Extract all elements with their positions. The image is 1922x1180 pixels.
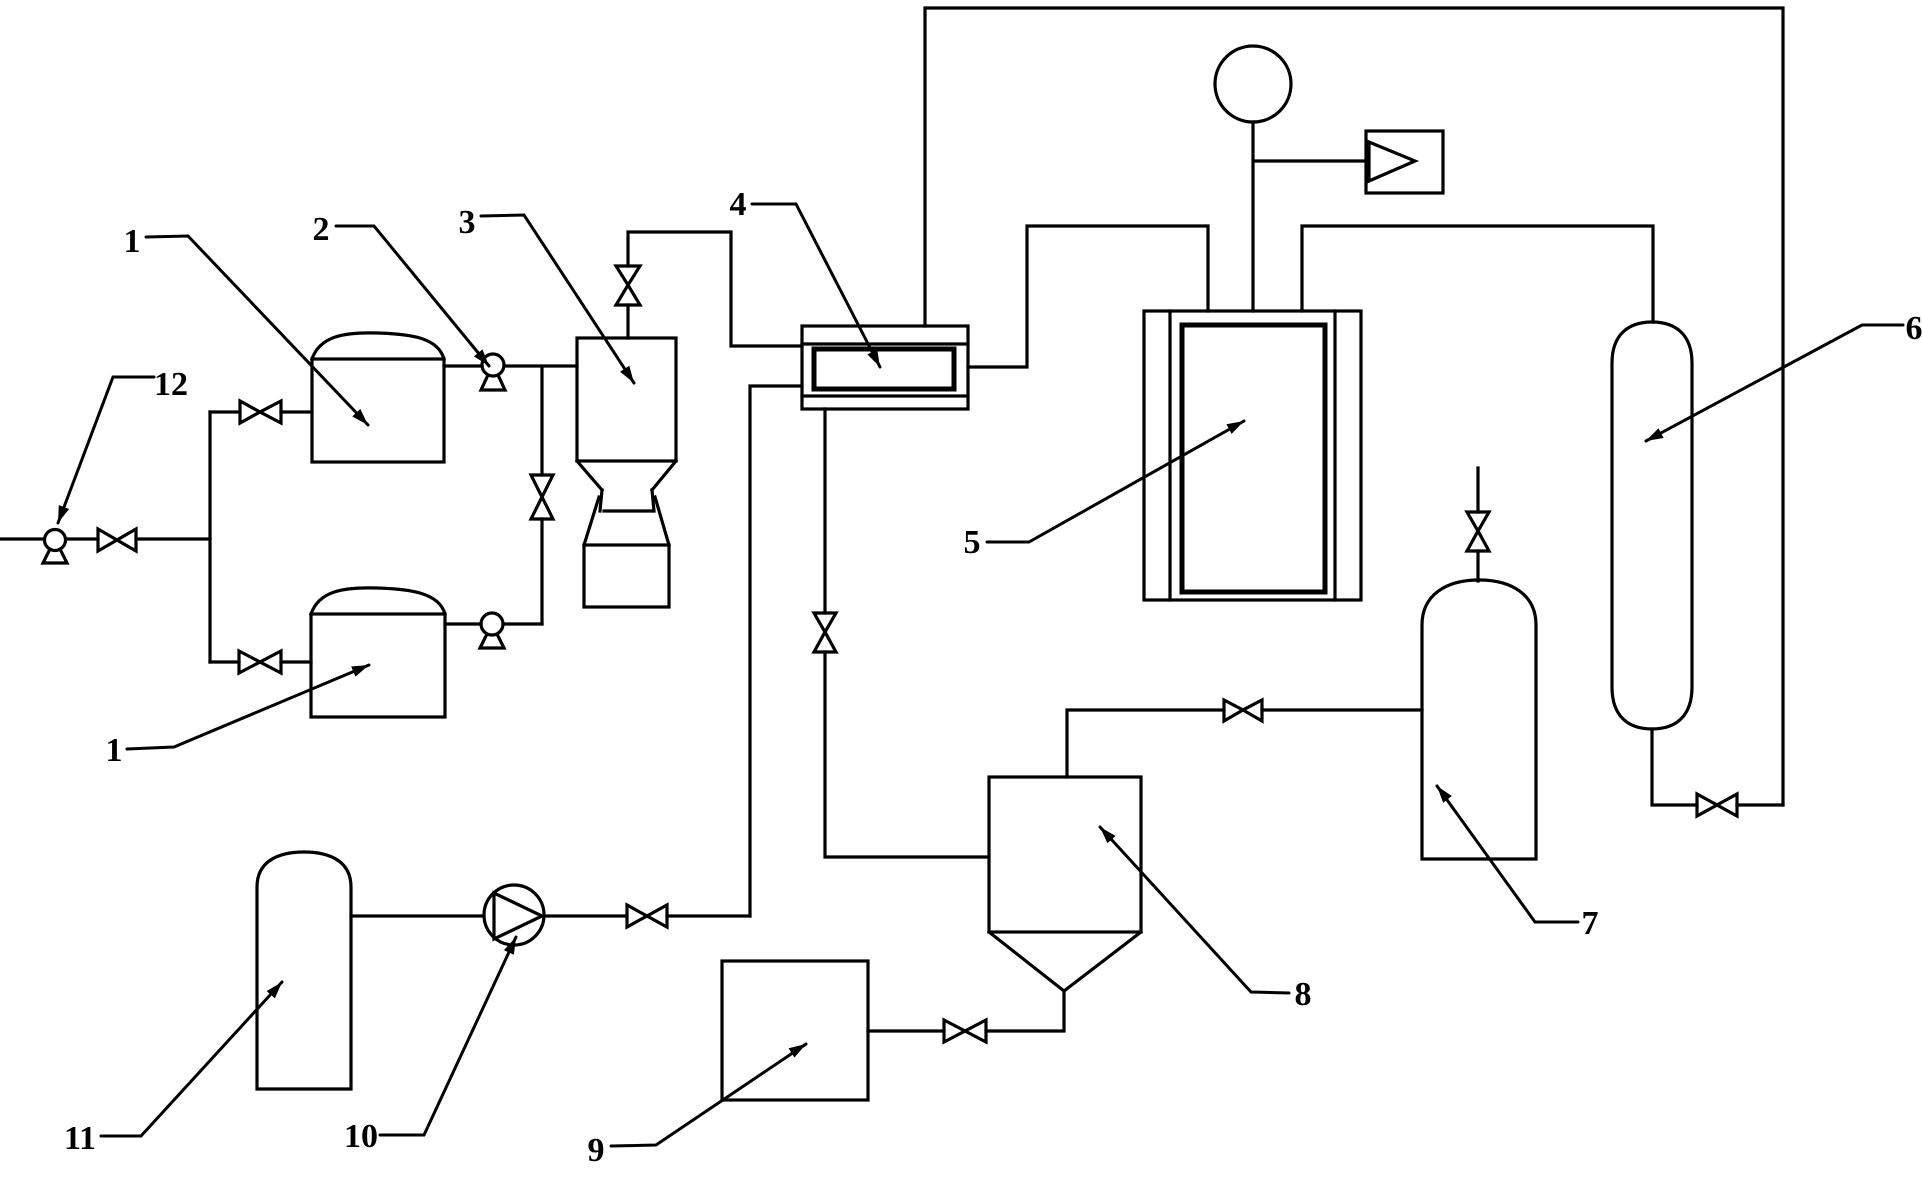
leader label 6 — [1646, 325, 1903, 441]
wire tank2 outlet — [445, 622, 542, 625]
wire pump10 line — [351, 914, 750, 917]
arrow leader 10 — [504, 935, 521, 955]
arrow leader 8 — [1096, 823, 1116, 843]
arrow leader 11 — [267, 978, 286, 998]
fan box — [1366, 131, 1443, 193]
pump 2 bottom — [480, 613, 504, 648]
arrow leader 4 — [867, 349, 885, 369]
pump 12 — [43, 530, 67, 564]
svg-text:12: 12 — [154, 366, 188, 403]
svg-text:10: 10 — [344, 1118, 378, 1155]
valve below heater4 — [814, 613, 836, 652]
svg-text:8: 8 — [1295, 976, 1312, 1013]
valve junction vertical — [531, 475, 553, 519]
valve inlet — [98, 529, 136, 551]
wire tank7 vent — [1476, 468, 1479, 581]
leader label 1 bottom — [127, 665, 369, 749]
leader label 7 — [1437, 786, 1578, 922]
arrow leader 12 — [53, 505, 69, 525]
arrow leader 3 — [620, 366, 639, 386]
column 6 — [1612, 322, 1692, 729]
svg-text:7: 7 — [1582, 905, 1599, 942]
leader label 2 — [336, 226, 489, 366]
wire top branch — [210, 410, 312, 413]
wire balloon stem — [1253, 122, 1366, 311]
tank 7 — [1422, 580, 1536, 859]
svg-text:3: 3 — [459, 204, 476, 241]
arrow leader 1 top — [352, 409, 372, 429]
wire hopper8 to tank7 — [1067, 710, 1422, 777]
valve hopper8 to tank7 — [1224, 700, 1262, 721]
valve column bottom — [1697, 794, 1737, 816]
svg-text:1: 1 — [124, 223, 141, 260]
svg-text:6: 6 — [1906, 310, 1922, 347]
leader label 1 top — [146, 236, 368, 425]
pump 2 top — [481, 354, 505, 390]
svg-text:2: 2 — [313, 211, 330, 248]
svg-text:1: 1 — [106, 732, 123, 769]
pump 10 — [484, 885, 544, 945]
valve mill riser — [616, 266, 640, 305]
valve hopper8 outlet — [944, 1020, 986, 1042]
wire bottom branch — [210, 660, 311, 663]
wire hopper8 outlet — [868, 991, 1064, 1031]
wire heater4 right to reactor — [968, 226, 1208, 367]
vessel 11 — [257, 852, 351, 1089]
svg-text:11: 11 — [64, 1120, 96, 1157]
arrow leader 6 — [1643, 428, 1663, 446]
tank 1 bottom — [311, 588, 445, 717]
leader label 4 — [752, 204, 880, 367]
heater 4 — [802, 326, 968, 409]
wire mill riser — [628, 232, 802, 346]
wire reactor to column — [1302, 226, 1653, 322]
wire column bottom — [1652, 729, 1783, 805]
wire branch vertical — [208, 412, 211, 662]
hopper 8 — [989, 777, 1141, 991]
svg-text:9: 9 — [588, 1132, 605, 1169]
svg-text:5: 5 — [964, 524, 981, 561]
wire inlet line left — [0, 537, 210, 540]
arrow leader 7 — [1433, 783, 1452, 803]
leader label 3 — [481, 215, 634, 383]
arrow leader 9 — [789, 1039, 809, 1057]
wire junction vertical mid — [540, 367, 543, 624]
leader label 10 — [380, 937, 516, 1135]
gauge balloon — [1215, 46, 1291, 122]
leader label 9 — [611, 1044, 806, 1146]
valve bottom branch — [239, 651, 281, 673]
leader label 12 — [58, 377, 154, 523]
arrow leader 2 — [474, 349, 493, 369]
leader label 5 — [987, 421, 1244, 542]
reactor 5 — [1144, 311, 1361, 600]
valve pump10 line — [627, 905, 667, 927]
wire heater4 bottom drop — [825, 409, 989, 857]
mill 3 — [577, 338, 676, 607]
leader label 11 — [101, 982, 282, 1136]
box 9 — [722, 961, 868, 1100]
arrow leader 5 — [1226, 416, 1246, 434]
arrow leader 1 bottom — [351, 660, 371, 677]
valve tank7 vent — [1467, 512, 1489, 551]
leader label 8 — [1100, 827, 1289, 993]
valve top branch — [240, 401, 281, 423]
wire heater4 top riser — [925, 8, 1783, 805]
tank 1 top — [312, 333, 444, 462]
wire tank1 outlet — [444, 364, 577, 367]
wire heater4 left down riser — [750, 386, 802, 916]
svg-text:4: 4 — [730, 186, 747, 223]
